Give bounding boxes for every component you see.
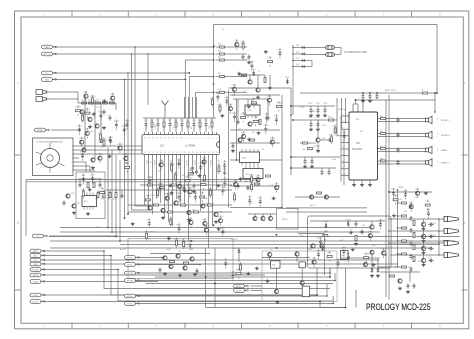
resistor R41 [93,183,95,188]
svg-text:10: 10 [180,137,182,139]
svg-text:R230: R230 [238,263,242,265]
wire midcol rail y160 [230,159,282,161]
wire midcol rail y95 [230,94,280,96]
IC5 left pin 9 [341,167,349,169]
svg-text:33: 33 [196,152,198,154]
IC1 top pin 8 [188,132,189,139]
svg-text:C201: C201 [425,201,429,203]
connector SP RL+ [125,294,140,298]
connector ACC +B [42,52,57,56]
capacitor R131 [122,124,126,134]
transistor Q30 [163,256,167,260]
capacitor C180 [232,112,236,123]
transistor R1320 [123,153,128,164]
wire part stub [199,118,201,132]
capacitor C100 [410,203,413,208]
capacitor Q192 [318,237,322,248]
wire L-net 2 to IC1 [189,76,214,118]
svg-text:14: 14 [164,137,166,139]
transistor R2114 [218,215,223,226]
IC5 left pin 7 [341,154,349,156]
ground R213 [167,237,171,240]
svg-text:PROLOGY MCD-225: PROLOGY MCD-225 [366,302,431,312]
wires regulator section [262,256,310,289]
grounds bottom cluster [163,272,197,277]
diode D165 [285,77,289,84]
ground Q199 [349,231,353,234]
svg-text:TDA7384: TDA7384 [352,148,362,151]
resistor R105 [397,266,407,268]
svg-text:R153: R153 [228,105,232,107]
resistor row R11-R15 [78,100,116,104]
transistor Q54 [370,225,374,229]
wire bus x112 [111,150,113,232]
wire part stub [211,118,213,132]
svg-text:C200: C200 [403,190,407,192]
resistor R150 [328,117,334,121]
wires CD deck to driver box [79,162,94,172]
svg-text:C181: C181 [241,113,245,115]
IC5 left pin 1 [341,114,349,116]
svg-text:330: 330 [312,111,315,113]
capacitor Q1914 [378,219,383,230]
wire bus y236 [49,236,460,238]
svg-text:100: 100 [362,225,365,227]
capacitor R231 [230,271,234,282]
IC1 bottom pin 20 [144,152,146,157]
wire part stub [169,118,171,132]
transistor Q40 [268,252,272,256]
connector AUX L [234,284,263,288]
IC8 regulator [302,286,309,297]
diode D21 [371,267,374,273]
svg-text:C182: C182 [241,132,245,134]
svg-text:MUTE: MUTE [282,219,288,221]
connector MUTE (rear) [30,273,45,277]
resistor R2112 [174,238,179,249]
transistor Q24 [201,203,209,208]
svg-text:Q17: Q17 [77,203,80,205]
svg-text:R172: R172 [333,126,337,128]
capacitor Q195 [346,252,350,263]
wire L-net 1 to IC1 [185,59,214,118]
svg-text:R83: R83 [380,158,383,160]
wire speaker pair FRONT L [378,118,426,122]
capacitor C103 [410,241,413,246]
wires power block [310,221,385,267]
IC1 top pin 11 [176,132,178,139]
capacitor C12 [109,115,112,120]
wire lineout top rail [388,191,432,193]
ground R1317 [92,112,96,115]
wire part stub [145,118,147,132]
transistor Q20 [148,205,156,210]
wire feeds to power amp 2 [341,98,343,129]
resistor in series REAR R [380,158,386,162]
svg-text:D13: D13 [296,64,299,66]
resistor C1422 [173,172,178,183]
IC1 top pin name labels [145,123,211,129]
ground regulator 1 [266,279,270,282]
IC1 bottom pin 35 [204,152,206,157]
transistor Q63 [421,255,425,263]
transistor R1316 [118,143,123,154]
speaker SP3 REAR L [426,146,432,153]
capacitor C95 [355,221,358,226]
svg-text:AUX R: AUX R [236,289,242,292]
svg-text:470: 470 [394,267,397,269]
jack plug J1 [36,90,49,95]
svg-text:36: 36 [208,152,210,154]
resistor in series REAR L [380,146,386,150]
resistor R112 [413,245,415,250]
resistor in series FRONT R [380,131,386,135]
svg-text:D162: D162 [241,41,245,43]
speaker label FRONT L [437,118,451,124]
resistor R22 [174,120,177,127]
resistor C1428 [208,187,213,198]
svg-text:R138: R138 [108,137,112,139]
transistor R1323 [79,137,84,148]
wire IC1 pin drop [200,157,202,211]
junction dots various [103,45,436,304]
wire lineout row 1 [390,218,444,219]
wire junction dots on feed lines [184,46,214,80]
ground Q15 emitter [316,142,320,152]
wire rail row y157 [290,156,340,158]
IC1 servo DSP LC78341 [142,135,220,155]
svg-text:R.OUT: R.OUT [33,301,40,303]
svg-text:47u: 47u [252,132,255,134]
svg-text:FRONT R: FRONT R [441,135,451,137]
ground Q1915 [372,263,376,266]
wire rail above IC1 [143,117,216,119]
speaker SP1 FRONT L [426,116,432,123]
capacitor R219 [220,226,224,237]
wire parts column vertical [397,190,399,267]
wire lineout row 4 [390,254,444,255]
svg-text:Q190: Q190 [368,232,372,234]
antenna symbol [162,101,169,113]
svg-text:Q25: Q25 [219,211,223,213]
wire speaker pair REAR L [378,148,426,152]
grounds preamp row [161,216,218,223]
svg-text:26: 26 [168,152,170,154]
capacitor R1315 [98,110,103,121]
transistor Q32 [190,257,194,261]
wire cluster verticals [206,248,346,308]
svg-text:R234: R234 [223,260,227,262]
svg-text:B: B [17,221,19,225]
resistor R84 [208,204,213,206]
svg-text:D12: D12 [296,58,299,60]
wire battery rail 1 [300,92,435,94]
svg-text:34: 34 [200,152,202,154]
connector GND [42,78,57,82]
wire rail row y168 [290,167,336,169]
resistor R25 [210,120,213,127]
wire branch of ILL+ to lower board [127,72,129,214]
svg-text:4: 4 [204,137,205,139]
capacitor C83 [237,183,240,188]
junction dot bus [213,224,278,235]
svg-text:5: 5 [200,137,201,139]
transistor C285 [233,179,238,190]
wire bus y227 [60,227,370,229]
ground R1310 [102,100,106,103]
resistor R218 [144,230,148,241]
svg-text:C241: C241 [100,188,104,190]
capacitor C156 [303,157,307,168]
transistor Q5 [91,158,95,162]
svg-text:AVCC: AVCC [310,204,316,207]
capacitor C159 [328,168,331,175]
wire IC1 pin drop [196,157,198,169]
resistor R104 [397,253,407,255]
svg-text:Q191: Q191 [327,252,331,254]
svg-text:P3: P3 [343,127,345,129]
resistor R46 [107,190,111,201]
svg-text:DATA: DATA [153,160,156,165]
svg-text:Q16: Q16 [71,193,74,195]
connector GND (rear) [30,262,45,266]
IC1 top pin 10 [180,132,182,139]
lamp LP1 [326,46,335,50]
svg-text:C145: C145 [222,169,226,171]
resistor C205 [393,194,398,205]
svg-text:0.047: 0.047 [166,249,171,251]
resistor R44 [95,190,99,201]
svg-text:D11: D11 [296,51,299,53]
border zone ticks bottom [72,323,412,329]
wire bus x108 [107,147,109,228]
svg-text:Q1910: Q1910 [324,221,329,223]
servo section box edge [229,88,292,208]
capacitor across FRONT R [397,132,400,137]
connector ILL (rear) [30,258,45,262]
IC4 servo amp [243,169,263,179]
transistor R216 [188,217,193,228]
transistor Q50 [310,195,314,199]
motor driver section box [76,172,105,219]
wire from ILL+ [53,72,190,74]
svg-text:6: 6 [196,137,197,139]
capacitor C41 [99,182,102,187]
IC1 bottom pin 21 [148,152,150,157]
speaker label REAR L [437,148,449,154]
IC1 top pin 15 [160,132,162,139]
IC3 small regulator [245,105,260,115]
IC1 bottom pin 34 [200,152,202,157]
svg-text:SP FR-: SP FR- [127,280,134,282]
transistor Q56 [363,262,367,266]
IC1 top pin 12 [172,132,174,139]
diode Q194 [320,244,324,251]
svg-text:MUTE: MUTE [150,232,156,234]
svg-text:R214: R214 [181,240,185,242]
svg-text:19: 19 [144,137,146,139]
CD mechanism box [33,138,74,176]
connector L.OUT (rear) [30,293,45,297]
svg-text:27: 27 [172,152,174,154]
capacitor C21 [156,120,160,127]
resistor R103 [397,240,407,242]
resistor R1311 [85,108,90,119]
net name labels [96,29,437,251]
capacitor C140 [222,160,226,171]
border zone ticks top [72,11,412,17]
capacitor R138 [108,136,112,147]
resistor R30 [204,176,206,181]
grounds power block [354,242,380,277]
IC1 bottom pin 32 [192,152,194,157]
wire IC1 pin drop [156,157,158,199]
svg-text:SP FL+: SP FL+ [127,257,134,259]
illumination label [344,51,367,54]
resistor R96 [355,236,357,241]
wire from F.GND (rear) [43,281,159,283]
svg-text:ACC: ACC [340,239,345,242]
connector ILL+ [42,71,57,75]
capacitor C121 [413,283,416,288]
IC1 top pin 16 [156,132,158,139]
transistor Q22 [174,200,182,205]
resistor R54 [216,89,247,93]
resistor R130 [98,132,102,143]
wire IC1 pin drop [168,157,170,222]
ground below Q2 [88,125,92,128]
capacitor C90 [159,267,162,272]
transistor C1810 [270,137,275,148]
svg-text:C282: C282 [258,198,262,200]
capacitor C24 [192,120,196,127]
resistor D162 [241,40,245,51]
svg-text:SP RL-: SP RL- [127,303,133,305]
IC10 focus coil driver [240,152,260,163]
svg-text:20: 20 [144,152,146,154]
IC5 left pin 3 [341,127,349,129]
resistor R91 [184,262,189,264]
resistor R40 [87,183,89,188]
resistor R51 [216,51,247,55]
IC1 bottom pin 26 [168,152,170,157]
resistor C1413 [201,179,206,190]
capacitor C157 [310,157,314,168]
resistor R113 [413,257,415,262]
wire bus y244 [120,244,440,246]
wire IC1 pin drop [192,157,194,165]
svg-text:Q21: Q21 [166,207,170,209]
transistor Q21 [161,207,169,212]
resistor C1419 [185,175,190,186]
transistor C281 [274,182,279,193]
svg-text:R130: R130 [98,133,102,135]
resistor R48 [147,182,153,186]
wire mid box edge [298,234,324,276]
resistor R102 [397,227,407,229]
IC5 left pin 2 [341,121,349,123]
wire bus y241 [50,240,455,242]
wire IC1 pin drop [184,157,186,207]
resistor R152 [308,148,313,150]
node dots power rail [362,92,378,94]
resistor R23 [186,120,189,127]
resistor R95 [317,192,322,194]
svg-text:LC78341: LC78341 [185,143,196,147]
wire IC1 pin drop [172,157,174,226]
ground below Q5 [91,166,95,169]
junction dots bottom buses [205,276,347,308]
capacitor C145 [222,167,226,178]
resistor D167 [268,56,273,67]
svg-text:BATT 14.4V: BATT 14.4V [385,89,396,92]
wire from ACC +B [53,53,214,55]
svg-text:D166: D166 [249,62,253,64]
resistor R230 [238,262,242,273]
wire J1 to input network [49,91,78,93]
svg-text:R210: R210 [168,218,172,220]
speaker label FRONT R [437,133,451,139]
resistor R16 [100,138,102,143]
svg-text:C289: C289 [256,176,260,178]
capacitor C60 [269,85,272,90]
capacitor C96 [361,229,364,234]
capacitor C1423 [177,192,182,203]
capacitor C155 [320,138,333,142]
svg-text:AVDD: AVDD [145,123,148,129]
svg-text:BATT: BATT [33,250,39,253]
wire diode rows to lamps [306,48,326,67]
resistor R70 [259,120,261,125]
capacitor C1411 [220,186,225,197]
wire from BATT (rear) [43,251,331,289]
svg-text:C140: C140 [222,161,226,163]
diode Q1910 [324,221,329,228]
transistor R136 [110,93,115,104]
IC5 left pin 6 [341,147,349,149]
capacitor R155 [215,92,219,103]
resistor C144 [216,164,220,175]
speaker label REAR R [437,160,449,166]
svg-text:Q196: Q196 [312,258,316,260]
svg-text:ILLUMINATION LAMP: ILLUMINATION LAMP [344,51,367,54]
wire part stub [163,118,165,132]
transistor Q42 [274,289,278,293]
ground R2111 [131,222,135,225]
svg-text:C244: C244 [81,189,85,191]
resistor R47 [113,190,117,201]
resistor R57 [171,182,177,186]
capacitor C80 [237,119,240,124]
wire lineout bus vertical [438,219,440,255]
svg-text:TEO: TEO [200,125,202,129]
connector P.ANT [42,45,57,49]
connector CN ILL [33,234,119,238]
coil L2 [421,90,428,94]
capacitor C154 [316,117,321,131]
svg-text:0.1: 0.1 [350,229,353,231]
transistor Q55 [370,250,374,254]
IC1 top pin 1 [216,132,217,139]
IC2 pins [84,193,93,210]
capacitor C1417 [198,162,203,173]
connector P.CONT (rear) [30,268,45,272]
resistor R214 [181,239,185,250]
transistor Q52 [311,244,315,248]
svg-text:R231: R231 [230,272,234,274]
IC5 left pin 4 [341,134,349,136]
svg-text:IC5: IC5 [356,142,360,145]
